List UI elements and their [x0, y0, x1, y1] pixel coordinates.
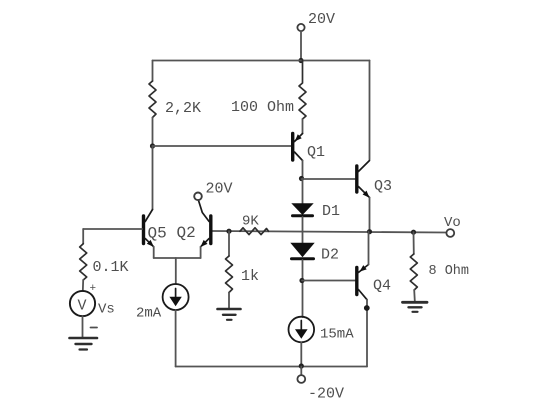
terminal 20V (Q2 collector) [194, 193, 202, 201]
wire Vs to ground [82, 316, 84, 337]
wire 2mA to bottom rail [175, 310, 177, 367]
label minus [91, 327, 98, 329]
wire Q2 emitter drop [200, 247, 202, 258]
svg-text:Q5: Q5 [148, 225, 167, 243]
svg-text:0.1K: 0.1K [93, 259, 129, 276]
transistor Q3 NPN [357, 161, 370, 198]
wire -20V terminal stub [300, 367, 302, 376]
ground below 8 Ohm [403, 302, 428, 312]
resistor R 8 Ohm [410, 254, 417, 290]
node 1k tap [226, 229, 231, 234]
wire right rail (top to Q3 collector) [369, 61, 371, 160]
transistor Q4 PNP [357, 265, 369, 300]
svg-text:Vo: Vo [444, 215, 461, 231]
svg-text:20V: 20V [206, 181, 233, 198]
node left junction [150, 143, 155, 148]
svg-text:Q4: Q4 [373, 278, 391, 295]
resistor R 0.1K [80, 244, 87, 280]
terminal -20V [297, 375, 305, 383]
current source I1 2mA [163, 284, 189, 310]
node output rail / Q3 Q4 emitters [367, 229, 372, 234]
node Q4 base junction [299, 278, 304, 283]
node top rail junction [298, 58, 303, 63]
resistor R 9K (horizontal) [240, 228, 269, 235]
svg-text:Q3: Q3 [374, 178, 392, 195]
wire tail tap [175, 258, 177, 284]
wire Q4 collector down [366, 300, 368, 367]
wire Q4 base [302, 280, 355, 282]
wire bottom rail [176, 366, 367, 368]
wire D2 to Q4 base node [302, 260, 304, 317]
svg-text:2,2K: 2,2K [165, 100, 201, 117]
svg-text:100 Ohm: 100 Ohm [231, 99, 294, 116]
wire Q3 emitter to output rail [369, 198, 371, 232]
svg-text:8 Ohm: 8 Ohm [429, 264, 470, 279]
wire 0.1K to Vs [82, 280, 84, 291]
svg-text:V: V [78, 298, 87, 315]
transistor Q1 PNP [293, 134, 303, 161]
terminal Vo [446, 229, 454, 237]
wire 100 Ohm to Q1 emitter [302, 119, 304, 134]
svg-text:+: + [90, 283, 97, 295]
transistor Q2 NPN [199, 201, 211, 247]
wire Q4 emitter up [368, 232, 370, 265]
svg-text:20V: 20V [308, 11, 335, 28]
wire 2.2K to node [152, 118, 154, 147]
wire 1k to ground [228, 293, 230, 309]
svg-text:-20V: -20V [308, 386, 344, 403]
node Q4 collector dot [364, 305, 370, 311]
ground below Vs [70, 338, 98, 350]
svg-text:9K: 9K [242, 214, 259, 230]
svg-text:D1: D1 [322, 203, 340, 220]
node Q1 collector / Q3 base [299, 176, 304, 181]
wire 20V terminal to top rail [300, 31, 302, 60]
wire emitter join [154, 257, 201, 259]
resistor R 1k [226, 256, 233, 293]
wire 15mA to bottom rail [300, 342, 302, 366]
wire output rail [213, 231, 447, 233]
source Vs [70, 291, 95, 316]
wire D1 to D2 (crosses output rail) [302, 217, 304, 243]
wire Q3 base [302, 178, 356, 180]
wire node to Q5 collector [152, 146, 154, 210]
svg-text:2mA: 2mA [136, 306, 162, 322]
resistor R 100 Ohm [299, 61, 306, 120]
svg-text:Q1: Q1 [307, 144, 325, 161]
wire 8 Ohm to ground [413, 290, 416, 301]
ground below 1k [218, 309, 241, 320]
wire Q5 base [83, 228, 142, 230]
wire Q5 emitter drop [153, 247, 155, 258]
transistor Q5 NPN [144, 210, 154, 248]
current source I2 15mA [289, 317, 315, 343]
node output rail / 8 Ohm [411, 230, 416, 235]
diode D2 [290, 243, 314, 259]
wire top rail [153, 60, 370, 62]
svg-text:Q2: Q2 [177, 224, 196, 242]
svg-text:15mA: 15mA [320, 327, 354, 343]
wire 1k tap down [228, 231, 230, 256]
wire 8 Ohm top [413, 232, 415, 254]
diode D1 [291, 179, 313, 216]
svg-text:D2: D2 [321, 247, 339, 264]
node bottom rail / -20V [299, 363, 304, 368]
wire Q1 base [153, 145, 292, 147]
svg-text:Vs: Vs [98, 302, 115, 318]
wire left rail top [152, 61, 154, 82]
svg-text:1k: 1k [241, 268, 259, 285]
resistor R 2.2K [149, 81, 156, 118]
terminal +20V top [297, 24, 304, 31]
wire Q1 collector down [302, 161, 304, 179]
wire Q5 base corner down [82, 229, 84, 244]
